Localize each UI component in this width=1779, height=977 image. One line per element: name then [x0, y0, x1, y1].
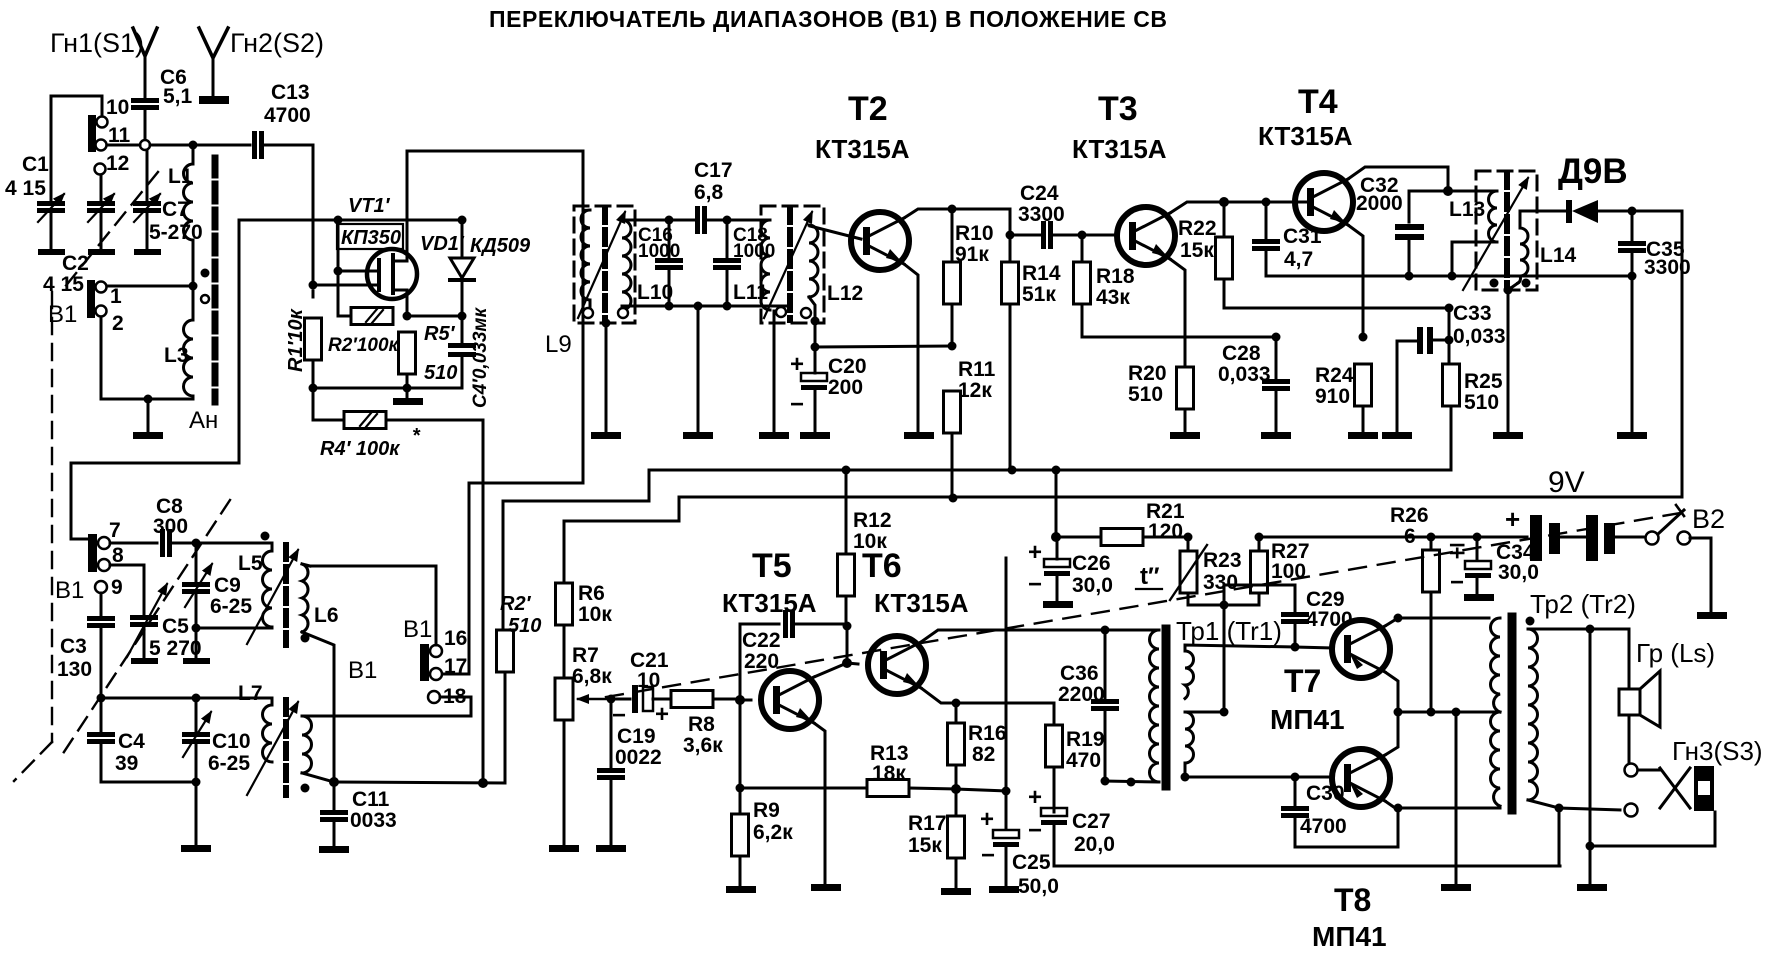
svg-text:VT1′: VT1′ [348, 195, 391, 217]
L10 top wire [622, 219, 669, 222]
wire to R2' 510 [502, 501, 505, 631]
svg-text:Т3: Т3 [1098, 90, 1138, 128]
L5 bottom wire [196, 627, 272, 628]
resistor R13 18к [867, 780, 909, 797]
svg-text:18к: 18к [872, 762, 906, 785]
svg-text:1000: 1000 [733, 241, 775, 262]
svg-text:Тр1 (Tr1): Тр1 (Tr1) [1176, 616, 1282, 646]
svg-text:L9: L9 [545, 331, 572, 358]
T7 emitter node [1385, 672, 1398, 712]
transistor T4 КТ315А [1295, 173, 1353, 231]
svg-text:R1′10к: R1′10к [285, 308, 307, 372]
svg-text:0033: 0033 [350, 809, 397, 832]
coil L13 [1448, 190, 1497, 193]
svg-text:10к: 10к [578, 603, 612, 626]
wire contact1 to L1/L3 tap [107, 285, 193, 288]
svg-text:C4: C4 [118, 730, 145, 753]
svg-text:9: 9 [111, 576, 123, 599]
node C9 top [192, 539, 201, 548]
svg-text:C27: C27 [1072, 810, 1111, 833]
capacitor C30 4700 [1291, 773, 1300, 782]
svg-text:12к: 12к [958, 379, 992, 402]
wire C20 node to R10/R11 node [815, 346, 952, 347]
L6 bottom down to common [302, 632, 334, 782]
T5 emitter [814, 723, 825, 884]
svg-text:R9: R9 [753, 799, 780, 822]
svg-text:R14: R14 [1022, 262, 1061, 285]
capacitor C28 0,033 [1272, 333, 1281, 342]
wire y276 AGC [1406, 275, 1632, 278]
svg-text:−: − [981, 842, 995, 869]
svg-text:510: 510 [424, 362, 457, 384]
svg-text:КТ315А: КТ315А [1258, 121, 1353, 151]
svg-text:300: 300 [153, 515, 188, 538]
svg-text:R12: R12 [853, 509, 892, 532]
coil L9 [581, 210, 590, 300]
svg-text:0022: 0022 [615, 746, 662, 769]
svg-text:Гн3(S3): Гн3(S3) [1672, 736, 1763, 766]
svg-text:3,6к: 3,6к [683, 734, 723, 757]
svg-text:+: + [1505, 504, 1520, 534]
svg-text:20,0: 20,0 [1074, 833, 1115, 856]
thermistor R23 330 [1184, 533, 1193, 542]
T4 collector wire to L13 [1348, 167, 1448, 191]
bottom node wire [313, 387, 462, 390]
svg-text:R5′: R5′ [424, 323, 456, 345]
svg-text:C4′0,033мк: C4′0,033мк [470, 307, 491, 408]
tuning gang dashed link [60, 500, 230, 758]
svg-text:Т7: Т7 [1284, 663, 1321, 699]
wire x469 to contact 17 [443, 483, 469, 674]
ground R5 [406, 388, 409, 398]
L12 bottom node [809, 297, 815, 347]
svg-text:2000: 2000 [1356, 192, 1403, 215]
svg-text:5 270: 5 270 [149, 637, 202, 660]
wire contact 18 to L7 secondary [310, 697, 471, 716]
svg-text:0,033: 0,033 [1218, 363, 1271, 386]
capacitor C24 3300 [1010, 234, 1040, 237]
svg-text:4700: 4700 [264, 104, 311, 127]
svg-text:R23: R23 [1203, 549, 1242, 572]
svg-text:11: 11 [108, 124, 131, 147]
svg-text:C28: C28 [1222, 342, 1261, 365]
svg-text:R4′ 100к: R4′ 100к [320, 438, 400, 460]
capacitor C35 3300 [1631, 211, 1634, 240]
speaker Гр (Ls) [1619, 689, 1640, 715]
T5 collector chain [846, 626, 849, 663]
capacitor C20 200 electrolytic [801, 373, 827, 390]
svg-text:R2′: R2′ [500, 593, 532, 615]
svg-text:4 15: 4 15 [43, 273, 84, 296]
svg-text:C22: C22 [742, 629, 781, 652]
svg-text:130: 130 [57, 658, 92, 681]
svg-text:R7: R7 [572, 644, 599, 667]
coil L10 [622, 220, 631, 310]
wire T8 collector node to Tp2 primary bottom [1398, 807, 1500, 810]
svg-text:120: 120 [1148, 520, 1183, 543]
transformer L9 box [574, 206, 635, 323]
switch gang dashed link B1 [64, 172, 158, 288]
svg-text:L7: L7 [238, 682, 263, 705]
capacitor C4 39 [100, 698, 103, 731]
T3 emitter to R20 [1170, 259, 1185, 367]
svg-text:12: 12 [106, 152, 129, 175]
capacitor C34 30,0 [1476, 537, 1479, 561]
svg-text:510: 510 [508, 615, 541, 637]
svg-text:L1: L1 [168, 165, 193, 188]
battery wire y537 [1259, 536, 1431, 539]
svg-text:39: 39 [115, 752, 138, 775]
capacitor C3 130 [100, 593, 103, 615]
svg-text:Гр (Ls): Гр (Ls) [1636, 638, 1715, 668]
svg-text:6,8: 6,8 [694, 181, 724, 204]
L9 gnd stem [605, 320, 608, 433]
capacitor C11 0033 [333, 782, 336, 810]
svg-text:6-25: 6-25 [210, 595, 252, 618]
svg-text:C5: C5 [162, 615, 189, 638]
svg-text:6,2к: 6,2к [753, 821, 793, 844]
coil L3 [184, 320, 194, 396]
svg-text:КТ315А: КТ315А [874, 588, 969, 618]
svg-text:100: 100 [1271, 560, 1306, 583]
svg-text:КП350: КП350 [341, 227, 401, 249]
capacitor C8 300 [110, 542, 157, 545]
svg-text:C36: C36 [1060, 662, 1099, 685]
capacitor C18 1000 [723, 216, 732, 225]
node T3 base [1078, 231, 1087, 240]
ferrite core (dashed) [212, 158, 219, 402]
svg-text:4700: 4700 [1300, 815, 1347, 838]
capacitor C19 0022 [610, 699, 613, 768]
coil L12 [809, 225, 818, 297]
svg-text:+: + [1028, 784, 1042, 811]
variable capacitor C1 [37, 201, 65, 213]
wire contact2 down and L3 bottom [101, 317, 193, 399]
resistor R22 15к [1223, 202, 1226, 237]
svg-text:6-25: 6-25 [208, 752, 250, 775]
svg-text:В2: В2 [1692, 504, 1725, 534]
svg-text:0,033: 0,033 [1453, 325, 1506, 348]
svg-text:15к: 15к [908, 834, 942, 857]
wire left drop to B1 contact 7 [71, 220, 239, 539]
svg-text:C11: C11 [352, 788, 390, 811]
svg-text:9V: 9V [1548, 466, 1585, 499]
wire T6 emitter right to R19 [956, 703, 1054, 725]
svg-text:−: − [612, 702, 626, 729]
svg-text:В1: В1 [55, 577, 84, 604]
svg-text:Тр2 (Tr2): Тр2 (Tr2) [1530, 589, 1636, 619]
variable arrow through L9 [578, 212, 625, 318]
svg-text:C30: C30 [1306, 782, 1345, 805]
common node to C11 and right [329, 777, 339, 787]
transistor T5 КТ315А [761, 671, 819, 729]
wire contact10 loop to C1 [51, 96, 102, 200]
Tp2 secondary [1526, 617, 1535, 626]
transformer L5/L6 [263, 551, 273, 627]
capacitor C21 10 electrolytic [611, 698, 630, 701]
resistor R20 510 [1177, 367, 1194, 409]
Tp2 primary [1491, 618, 1500, 712]
svg-text:910: 910 [1315, 385, 1350, 408]
svg-text:30,0: 30,0 [1072, 574, 1113, 597]
svg-text:91к: 91к [955, 243, 989, 266]
bias node to Tr1 center tap [1220, 601, 1229, 610]
resistor R17 15к [955, 789, 958, 816]
svg-text:+: + [1028, 539, 1042, 566]
capacitor C6 [131, 98, 159, 110]
svg-text:2200: 2200 [1058, 683, 1105, 706]
capacitor C13 [252, 131, 264, 159]
node R5 top [403, 312, 412, 321]
resistor R2' 100к [351, 308, 393, 325]
T2 collector wire [904, 209, 952, 218]
svg-text:Гн2(S2): Гн2(S2) [230, 28, 324, 58]
dashed link R7 to B2 [606, 512, 1686, 697]
transistor T8 МП41 [1295, 776, 1332, 779]
switch B1 contacts 16,17,18 [420, 644, 429, 681]
node L1 top [189, 141, 198, 150]
Tp1 secondary [1185, 651, 1194, 699]
svg-text:R18: R18 [1096, 265, 1135, 288]
node dot L13 bottom on AGC wire [1448, 272, 1457, 281]
svg-text:+: + [980, 806, 994, 833]
svg-text:C1: C1 [22, 153, 49, 176]
T2 emitter to ground [904, 264, 918, 433]
svg-text:C26: C26 [1072, 552, 1111, 575]
svg-text:Гн1(S1): Гн1(S1) [50, 28, 144, 58]
switch B1 contacts 10,11,12 [88, 115, 96, 152]
L12 top to T2 base [810, 226, 861, 239]
wire C13 to VT1 column [265, 144, 313, 147]
svg-text:30,0: 30,0 [1498, 561, 1539, 584]
svg-text:R17: R17 [908, 812, 947, 835]
line from C25 node up (dangling bias line) [1005, 558, 1008, 791]
variable capacitor C2 [100, 175, 103, 200]
variable capacitor C9 6-25 [195, 543, 198, 582]
resistor R27 100 [1255, 533, 1264, 542]
svg-text:L11: L11 [733, 281, 768, 304]
antenna Гн1(S1) [133, 28, 157, 56]
coil taps [201, 269, 210, 278]
switch B2 [1646, 532, 1659, 545]
svg-text:5-270: 5-270 [149, 221, 203, 244]
variable capacitor C10 6-25 [195, 698, 198, 731]
svg-text:C25: C25 [1012, 851, 1051, 874]
svg-text:C33: C33 [1453, 302, 1492, 325]
ground [147, 399, 150, 432]
svg-text:Т5: Т5 [752, 547, 792, 585]
transformer Tp1 [1101, 626, 1110, 635]
svg-text:R6: R6 [578, 582, 605, 605]
resistor R6 10к [556, 583, 573, 625]
L6 top wire [302, 564, 310, 566]
svg-text:17: 17 [444, 655, 467, 678]
secondary top ground drop [1589, 629, 1592, 846]
wire L6 top to contact 16 [310, 566, 436, 645]
svg-text:510: 510 [1128, 383, 1163, 406]
svg-text:C13: C13 [271, 81, 310, 104]
svg-text:−: − [1028, 571, 1042, 598]
resistor R12 10к [845, 470, 848, 554]
potentiometer R7 6,8к [555, 678, 573, 720]
svg-text:C24: C24 [1020, 182, 1059, 205]
svg-text:4 15: 4 15 [5, 177, 46, 200]
T4 emitter to R24 [1348, 225, 1363, 337]
wire y220 gate bus [239, 219, 462, 222]
svg-text:R10: R10 [955, 222, 994, 245]
bottom bus of filter [622, 305, 786, 308]
capacitor C25 50,0 [956, 789, 1006, 791]
wire contact8 to C5 [110, 565, 144, 614]
antenna Гн2(S2) [199, 28, 228, 58]
T6 collector to Tr1 [921, 630, 1105, 642]
bus A (AGC) y470 with left step [503, 470, 1451, 501]
svg-text:3300: 3300 [1018, 203, 1065, 226]
svg-text:1000: 1000 [638, 241, 680, 262]
svg-text:C9: C9 [214, 574, 241, 597]
transistor T7 МП41 [1295, 647, 1332, 648]
svg-text:10: 10 [106, 96, 129, 119]
svg-text:51к: 51к [1022, 283, 1056, 306]
coil L14 [1518, 228, 1528, 283]
svg-text:510: 510 [1464, 391, 1499, 414]
transformer L7 [263, 705, 273, 762]
svg-text:МП41: МП41 [1312, 921, 1387, 952]
resistor R14 51к [1009, 235, 1012, 262]
svg-text:Т4: Т4 [1298, 83, 1338, 121]
bottom wire to phone jack [1590, 812, 1715, 846]
resistor R18 43к [1081, 235, 1084, 262]
svg-text:C10: C10 [212, 730, 251, 753]
svg-text:КТ315А: КТ315А [722, 588, 817, 618]
svg-text:Ан: Ан [189, 407, 218, 434]
wire R9 node to R13 [740, 787, 866, 790]
T6 base wire [847, 663, 858, 664]
svg-text:Т2: Т2 [848, 90, 888, 128]
svg-text:5,1: 5,1 [163, 85, 193, 108]
svg-text:R20: R20 [1128, 362, 1167, 385]
switch B1 contacts 1,2 [87, 280, 95, 318]
diode VD1' КД509 [458, 216, 467, 225]
resistor R9 6,2к [739, 788, 742, 814]
svg-text:КД509: КД509 [470, 235, 531, 257]
resistor R10 91к [951, 209, 954, 262]
coil L11 [761, 220, 770, 310]
switch B1 contacts 7,8,9 [88, 534, 97, 572]
capacitor C32 2000 [1409, 191, 1448, 222]
svg-text:R16: R16 [968, 722, 1007, 745]
node T5 base [735, 695, 745, 705]
svg-text:R8: R8 [688, 713, 715, 736]
variable capacitor C7 (tuning) [146, 150, 149, 200]
svg-text:C20: C20 [828, 355, 867, 378]
resistor R25 510 [1448, 340, 1451, 365]
bus B (9V) y497 with left step [564, 497, 1682, 521]
svg-text:t″: t″ [1140, 563, 1160, 590]
svg-text:50,0: 50,0 [1018, 875, 1059, 898]
T6 emitter [921, 688, 956, 703]
svg-text:Т6: Т6 [862, 547, 902, 585]
svg-text:2: 2 [112, 312, 124, 335]
svg-text:C3: C3 [60, 635, 87, 658]
svg-text:R22: R22 [1178, 217, 1217, 240]
svg-text:−: − [1450, 569, 1464, 596]
T8 collector up [1385, 712, 1398, 755]
core L9 dashed [602, 208, 608, 320]
capacitor C27 20,0 [1041, 808, 1067, 825]
R26 6 [1430, 537, 1433, 550]
secondary top to speaker [1528, 628, 1590, 631]
svg-text:L12: L12 [827, 282, 863, 305]
svg-text:L3: L3 [164, 344, 189, 367]
resistor R4' 100к [313, 388, 344, 420]
Tp1 primary coil [1105, 629, 1159, 632]
svg-text:R26: R26 [1390, 504, 1429, 527]
svg-text:15к: 15к [1180, 239, 1214, 262]
coil L1 [192, 150, 195, 164]
svg-text:43к: 43к [1096, 286, 1130, 309]
svg-text:КТ315А: КТ315А [815, 134, 910, 164]
node gate2 column [334, 216, 343, 225]
T3 collector [1170, 202, 1224, 213]
resistor R2' 510 [497, 630, 514, 672]
Tp1 core [1162, 629, 1171, 786]
T8 emitter down [1297, 801, 1398, 847]
transistor T6 КТ315А [868, 636, 926, 694]
svg-text:R25: R25 [1464, 370, 1503, 393]
svg-text:L6: L6 [314, 604, 339, 627]
stub L9 top [583, 209, 590, 211]
svg-text:4,7: 4,7 [1284, 248, 1313, 271]
wire bus A to R21 row [1055, 470, 1058, 537]
node gate1 [309, 281, 318, 290]
transistor T3 КТ315А [1117, 207, 1175, 265]
resistor R5' 510 [399, 332, 416, 374]
svg-text:3300: 3300 [1644, 256, 1691, 279]
svg-text:Т8: Т8 [1334, 882, 1371, 918]
svg-text:В1: В1 [403, 616, 432, 643]
capacitor C31 4,7 [1265, 202, 1268, 238]
capacitor C17 6,8 [669, 219, 694, 222]
svg-text:L13: L13 [1449, 198, 1485, 221]
node junction circle at C6 bottom [140, 140, 150, 150]
resistor R19 470 [1046, 725, 1063, 767]
svg-text:МП41: МП41 [1270, 704, 1345, 735]
resistor R8 3,6к [671, 691, 713, 708]
resistor R11 12к [944, 391, 961, 433]
svg-text:C17: C17 [694, 159, 733, 182]
wire antenna bus y145 [107, 144, 140, 147]
capacitor C22 220 feedback [740, 624, 779, 700]
svg-text:−: − [1028, 817, 1042, 844]
svg-text:R2′100к: R2′100к [328, 335, 400, 356]
capacitor C4' 0,033мк [461, 316, 464, 343]
svg-text:*: * [412, 425, 421, 447]
resistor R21 120 [1056, 536, 1100, 539]
resistor R1' 10к [312, 291, 315, 297]
variable capacitor C5 5-270 [130, 615, 158, 627]
capacitor C33 0,033 to ground [1396, 341, 1399, 433]
svg-text:VD1′: VD1′ [420, 233, 465, 255]
svg-text:470: 470 [1066, 749, 1101, 772]
resistor R16 82 [955, 703, 958, 723]
capacitor C16 1000 [668, 220, 671, 258]
capacitor C26 30,0 [1044, 559, 1070, 576]
phone jack Гн3(S3) [1625, 764, 1638, 777]
T7 collector up to Tp2 [1385, 618, 1398, 626]
svg-text:+: + [655, 701, 669, 728]
transformer L13/L14 box [1476, 171, 1537, 290]
